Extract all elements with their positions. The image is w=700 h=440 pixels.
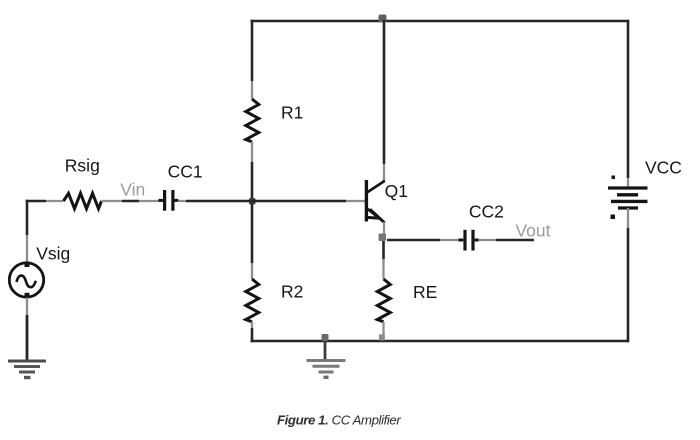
wire Vsig branch vertical: [26, 200, 29, 262]
wire Rsig to CC1: [102, 200, 159, 202]
wire CC1 to base junction: [178, 200, 186, 202]
node top junction: [379, 15, 387, 23]
wire top rail: [251, 20, 630, 23]
wire VCC branch lower: [627, 208, 629, 342]
svg-text:RE: RE: [413, 282, 437, 302]
wire R1 branch upper: [251, 20, 254, 99]
source Vsig: [9, 263, 43, 298]
wire RE branch upper: [382, 241, 385, 279]
resistor R2: [246, 279, 259, 322]
ground middle: [307, 361, 346, 378]
svg-text:VCC: VCC: [645, 157, 682, 177]
wire R1 to base junction: [251, 142, 253, 202]
ground left: [8, 361, 46, 378]
wire R2 to bottom rail: [251, 322, 253, 343]
wire bottom rail: [251, 340, 630, 343]
capacitor CC1: [159, 190, 179, 211]
battery VCC: [608, 176, 648, 220]
resistor R1: [246, 99, 259, 142]
wire collector branch: [383, 20, 386, 181]
wire RE to bottom rail: [379, 322, 385, 341]
wire ground stub: [324, 341, 327, 360]
svg-text:CC1: CC1: [168, 162, 203, 182]
wire emitter to CC2: [387, 239, 459, 242]
svg-text:R1: R1: [281, 103, 303, 123]
wire CC2 to Vout: [479, 239, 534, 241]
wire VCC branch upper: [627, 20, 630, 187]
wire R2 branch upper: [251, 204, 254, 279]
wire Vsig to ground: [26, 298, 28, 362]
node emitter junction: [379, 234, 387, 242]
wire base segment dark: [186, 200, 346, 203]
wire base gray stub at Q1: [346, 200, 365, 202]
wire Vsig corner to Rsig: [26, 200, 64, 203]
node base junction: [249, 198, 256, 205]
svg-text:Vsig: Vsig: [36, 244, 70, 264]
svg-text:Q1: Q1: [385, 181, 408, 201]
resistor Rsig: [64, 193, 102, 208]
svg-text:Rsig: Rsig: [65, 156, 100, 176]
resistor RE: [377, 279, 390, 322]
svg-text:Vout: Vout: [515, 221, 550, 241]
svg-text:Vin: Vin: [120, 180, 145, 200]
node ground junction: [322, 334, 329, 341]
transistor Q1: [366, 180, 384, 223]
svg-text:R2: R2: [281, 282, 303, 302]
svg-text:Figure 1. CC Amplifier: Figure 1. CC Amplifier: [277, 412, 401, 427]
wire emitter stub: [383, 222, 385, 240]
svg-text:CC2: CC2: [469, 201, 504, 221]
capacitor CC2: [459, 230, 479, 251]
